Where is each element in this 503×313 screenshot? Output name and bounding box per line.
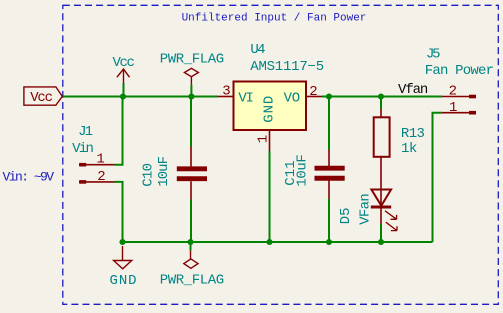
svg-text:VFan: VFan <box>358 194 374 225</box>
svg-text:1: 1 <box>96 152 104 168</box>
svg-text:PWR_FLAG: PWR_FLAG <box>160 273 224 289</box>
svg-text:Fan Power: Fan Power <box>425 63 494 79</box>
svg-text:J5: J5 <box>426 47 440 63</box>
svg-text:Unfiltered Input / Fan Power: Unfiltered Input / Fan Power <box>182 13 367 25</box>
svg-text:J1: J1 <box>78 124 93 140</box>
svg-text:1k: 1k <box>401 141 417 157</box>
svg-text:2: 2 <box>97 169 105 185</box>
svg-text:C10: C10 <box>141 163 157 186</box>
svg-text:Vcc: Vcc <box>30 90 52 106</box>
svg-text:D5: D5 <box>338 207 354 224</box>
svg-text:10uF: 10uF <box>295 155 311 187</box>
svg-text:Vfan: Vfan <box>398 82 428 98</box>
svg-text:VO: VO <box>284 90 300 106</box>
svg-text:1: 1 <box>256 135 272 143</box>
svg-text:2: 2 <box>309 84 317 100</box>
svg-text:Vin: ~9V: Vin: ~9V <box>2 170 54 185</box>
svg-text:GND: GND <box>262 95 278 123</box>
svg-text:U4: U4 <box>250 42 265 58</box>
svg-text:Vcc: Vcc <box>113 55 135 71</box>
svg-text:1: 1 <box>449 100 457 116</box>
svg-text:3: 3 <box>222 83 230 99</box>
svg-text:10uF: 10uF <box>156 156 172 186</box>
svg-text:R13: R13 <box>401 126 425 142</box>
svg-text:AMS1117−5: AMS1117−5 <box>250 59 324 75</box>
svg-text:PWR_FLAG: PWR_FLAG <box>160 52 224 68</box>
svg-text:GND: GND <box>110 273 138 289</box>
svg-text:2: 2 <box>449 83 457 99</box>
svg-text:Vin: Vin <box>72 141 93 157</box>
svg-text:VI: VI <box>238 90 252 106</box>
